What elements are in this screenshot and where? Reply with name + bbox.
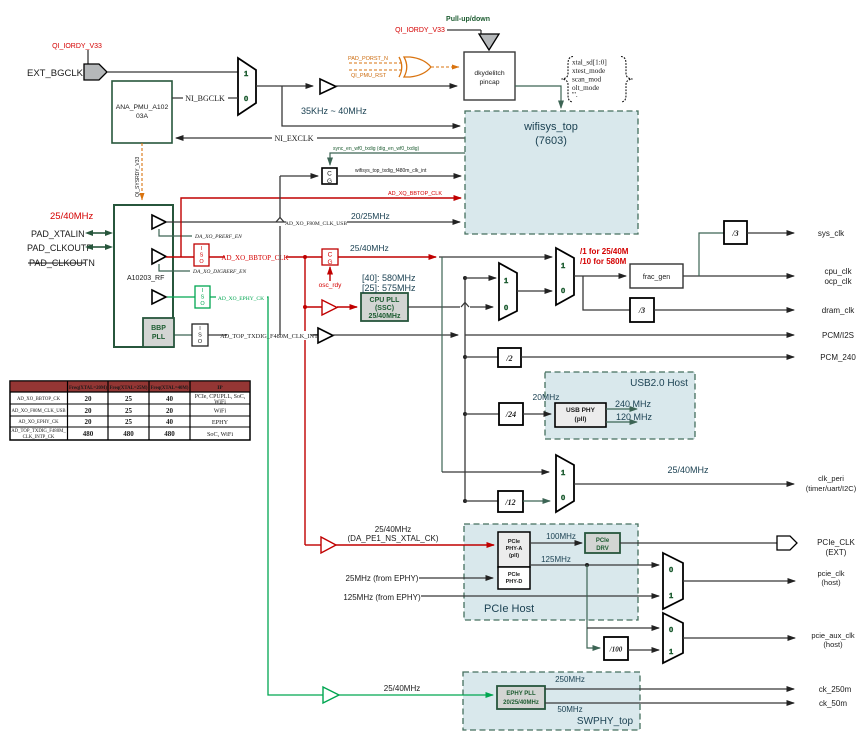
svg-text:0: 0 xyxy=(669,625,673,634)
mux M6 xyxy=(663,613,683,663)
svg-text:[40]: 580MHz: [40]: 580MHz xyxy=(362,273,416,283)
port PAD_CLKOUTP xyxy=(27,243,113,253)
svg-text:20/25/40MHz: 20/25/40MHz xyxy=(503,700,539,706)
svg-text:C: C xyxy=(328,252,333,259)
svg-text:A10203_RF: A10203_RF xyxy=(127,275,164,282)
wire aux vertical xyxy=(587,565,600,648)
svg-text:25/40MHz: 25/40MHz xyxy=(667,465,709,475)
svg-text:PAD_PORST_N: PAD_PORST_N xyxy=(348,56,388,62)
svg-text:DA_XO_DIGRERF_EN: DA_XO_DIGRERF_EN xyxy=(192,269,246,275)
svg-text:125MHz (from EPHY): 125MHz (from EPHY) xyxy=(343,593,421,602)
buffer B7 xyxy=(152,290,166,304)
svg-text:AD_TOP_TXDIG_F480M_CLK_INT: AD_TOP_TXDIG_F480M_CLK_INT xyxy=(220,333,318,340)
block ANA_PMU_A10203A xyxy=(112,81,172,143)
svg-text:PCIe: PCIe xyxy=(508,572,520,578)
svg-text:25/40MHz: 25/40MHz xyxy=(50,211,94,222)
svg-text:/10 for 580M: /10 for 580M xyxy=(580,257,627,266)
divider /100 xyxy=(604,637,628,660)
buffer B3 xyxy=(152,249,166,264)
buffer B2 xyxy=(152,215,166,229)
svg-text:25MHz (from EPHY): 25MHz (from EPHY) xyxy=(346,574,419,583)
svg-text:pincap: pincap xyxy=(479,79,499,86)
svg-text:PAD_XTALIN: PAD_XTALIN xyxy=(31,229,85,239)
divider /3 dram xyxy=(630,298,654,322)
svg-text:1: 1 xyxy=(561,261,565,270)
iso ISO1 red xyxy=(194,244,209,266)
block wifisys_top xyxy=(465,111,638,234)
svg-text:(timer/uart/I2C): (timer/uart/I2C) xyxy=(806,484,857,493)
wire to ephy pll xyxy=(339,684,493,695)
block EPHY PLL xyxy=(497,686,545,709)
svg-text:'''.: '''. xyxy=(572,91,578,99)
wire red vertical xyxy=(303,257,307,545)
svg-text:NI_EXCLK: NI_EXCLK xyxy=(274,134,313,143)
svg-text:wifisys_top: wifisys_top xyxy=(523,121,578,133)
wire PCM/I2S xyxy=(465,331,854,340)
svg-text:IP: IP xyxy=(217,385,223,391)
svg-text:480: 480 xyxy=(123,430,134,438)
wire mux out xyxy=(256,85,313,87)
svg-text:PAD_CLKOUTP: PAD_CLKOUTP xyxy=(27,243,92,253)
svg-text:QI_SYSRDY_V33: QI_SYSRDY_V33 xyxy=(135,156,141,197)
buffer B1 xyxy=(320,79,336,94)
svg-text:AD_XO_F80M_CLK_USB: AD_XO_F80M_CLK_USB xyxy=(11,409,65,414)
svg-text:SoC, WiFi: SoC, WiFi xyxy=(207,431,233,438)
svg-text:100MHz: 100MHz xyxy=(546,532,576,541)
wire pcie ext xyxy=(620,542,777,544)
wire AD_XO_BBTOP_CLK xyxy=(209,252,322,262)
svg-text:WiFi: WiFi xyxy=(214,400,226,406)
svg-text:240 MHz: 240 MHz xyxy=(615,399,652,409)
clock gate CG1 xyxy=(322,168,337,185)
svg-text:BBP: BBP xyxy=(151,325,166,332)
divider /24 xyxy=(465,403,523,425)
svg-text:1: 1 xyxy=(669,591,673,600)
svg-text:SWPHY_top: SWPHY_top xyxy=(577,716,634,727)
svg-text:1: 1 xyxy=(244,69,248,78)
pad PCIe_CLK EXT xyxy=(777,536,856,557)
wire DA_PE1 xyxy=(336,525,494,545)
svg-text:AD_XO_BBTOP_CK: AD_XO_BBTOP_CK xyxy=(17,397,61,402)
wire xor out xyxy=(431,66,459,68)
block SWPHY_top xyxy=(463,672,640,730)
svg-text:S: S xyxy=(200,253,204,259)
svg-text:/100: /100 xyxy=(609,646,623,654)
svg-text:PCIe: PCIe xyxy=(508,539,520,545)
svg-text:PLL: PLL xyxy=(152,334,166,341)
svg-text:40: 40 xyxy=(166,395,174,403)
svg-text:50MHz: 50MHz xyxy=(557,705,582,714)
divider /12 xyxy=(465,491,523,512)
block USB2.0 Host xyxy=(545,372,695,439)
block A10203_RF xyxy=(114,205,173,347)
svg-text:25/40MHz: 25/40MHz xyxy=(350,243,389,253)
buffer B5 xyxy=(318,328,333,343)
svg-text:O: O xyxy=(200,301,205,307)
svg-text:WiFi: WiFi xyxy=(214,408,227,415)
wire 480M xyxy=(333,334,458,336)
svg-text:DA_XO_PRERF_EN: DA_XO_PRERF_EN xyxy=(194,234,242,240)
svg-text:(EXT): (EXT) xyxy=(826,548,847,557)
wire cpupll out xyxy=(408,303,493,308)
wire enable DA_XO_PRERF_EN xyxy=(159,229,242,240)
wire aux 0 xyxy=(587,627,659,629)
wire xyxy=(336,85,457,87)
svg-text:sync_en_wf0_txdig (dig_en_wf0_: sync_en_wf0_txdig (dig_en_wf0_txdig) xyxy=(333,146,419,152)
wire AD_XQ_BBTOP_CLK xyxy=(181,191,461,257)
svg-text:PHY-D: PHY-D xyxy=(506,579,523,585)
svg-text:EPHY PLL: EPHY PLL xyxy=(506,691,536,697)
svg-text:dram_clk: dram_clk xyxy=(822,306,855,315)
wire xyxy=(166,256,194,258)
svg-text:/24: /24 xyxy=(505,410,516,419)
svg-text:20: 20 xyxy=(85,407,93,415)
svg-text:Freq(XTAL=20M): Freq(XTAL=20M) xyxy=(69,386,107,391)
wire red to pcie xyxy=(305,544,321,546)
svg-text:25/40MHz: 25/40MHz xyxy=(384,684,420,693)
svg-text:480: 480 xyxy=(83,430,94,438)
wire 25MHz ephy xyxy=(346,574,493,583)
buffer B4 red xyxy=(322,300,337,315)
svg-text:/3: /3 xyxy=(638,306,645,315)
svg-text:25: 25 xyxy=(125,418,133,426)
svg-text:(pll): (pll) xyxy=(509,553,519,559)
svg-text:40: 40 xyxy=(166,418,174,426)
wire pcie_clk xyxy=(683,569,845,587)
svg-text:/12: /12 xyxy=(504,498,515,507)
svg-text:20: 20 xyxy=(85,395,93,403)
svg-text:EPHY: EPHY xyxy=(212,419,229,426)
divider /3 top xyxy=(724,221,747,244)
wire 35KHz branch xyxy=(282,86,460,126)
svg-text:PHY-A: PHY-A xyxy=(506,546,523,552)
svg-text:0: 0 xyxy=(561,286,565,295)
svg-text:G: G xyxy=(327,259,332,266)
iso ISO3 black xyxy=(192,324,208,346)
block PCIe PHY-A xyxy=(498,532,530,567)
svg-text:G: G xyxy=(327,178,332,185)
svg-text:QI_PMU_RST: QI_PMU_RST xyxy=(351,73,387,79)
svg-text:20/25MHz: 20/25MHz xyxy=(351,211,390,221)
svg-text:25/40MHz: 25/40MHz xyxy=(369,313,401,320)
wire 25/40 to peri mux xyxy=(442,257,549,472)
svg-text:dkydelitch: dkydelitch xyxy=(474,70,504,77)
svg-text:/2: /2 xyxy=(505,354,512,363)
wire ck_50m xyxy=(545,699,847,714)
wire M3 out xyxy=(574,275,626,277)
svg-text:EXT_BGCLK: EXT_BGCLK xyxy=(27,68,84,79)
table freq xyxy=(10,381,250,440)
svg-text:35KHz ~ 40MHz: 35KHz ~ 40MHz xyxy=(301,106,367,116)
wire QI_PMU_RST xyxy=(349,70,402,79)
wire 20/25MHz usb xyxy=(166,211,460,227)
svg-text:pcie_aux_clk: pcie_aux_clk xyxy=(811,631,855,640)
svg-text:[25]: 575MHz: [25]: 575MHz xyxy=(362,283,416,293)
svg-text:480: 480 xyxy=(164,430,175,438)
svg-text:0: 0 xyxy=(504,303,508,312)
svg-text:PCIe Host: PCIe Host xyxy=(484,603,534,615)
wire AD_TOP_TXDIG label xyxy=(208,331,318,340)
buffer B6 red xyxy=(321,537,336,553)
svg-text:0: 0 xyxy=(561,493,565,502)
mux M2 xyxy=(499,263,517,320)
svg-text:Freq(XTAL=40M): Freq(XTAL=40M) xyxy=(151,386,189,391)
svg-text:PCM/I2S: PCM/I2S xyxy=(822,331,854,340)
svg-text:Pull-up/down: Pull-up/down xyxy=(446,16,490,23)
svg-text:25/40MHz: 25/40MHz xyxy=(375,525,411,534)
block PCIe Host xyxy=(464,524,638,620)
port EXT_BGCLK xyxy=(27,68,84,79)
svg-text:AD_XO_BBTOP_CLK: AD_XO_BBTOP_CLK xyxy=(221,254,288,262)
svg-text:DRV: DRV xyxy=(596,546,609,552)
block CPU PLL xyxy=(361,293,408,321)
svg-text:20: 20 xyxy=(166,407,174,415)
wire xyxy=(337,306,357,308)
svg-text:20: 20 xyxy=(85,418,93,426)
wire AD_XO_EPHY_CK xyxy=(210,293,323,695)
wire ephy iso xyxy=(167,296,195,298)
svg-text:25: 25 xyxy=(125,407,133,415)
wire 480M tap to CG1 xyxy=(279,176,281,335)
svg-text:0: 0 xyxy=(669,565,673,574)
wire f480m int to wifisys xyxy=(337,168,461,176)
svg-text:pcie_clk: pcie_clk xyxy=(817,569,844,578)
wire 120MHz xyxy=(606,412,653,422)
label 580MHz xyxy=(362,273,416,293)
svg-text:(7603): (7603) xyxy=(535,135,567,147)
wire NI_BGCLK xyxy=(172,93,238,103)
svg-text:AD_XO_F80M_CLK_USB: AD_XO_F80M_CLK_USB xyxy=(285,221,347,227)
divider /2 xyxy=(465,348,521,367)
svg-text:120 MHz: 120 MHz xyxy=(616,412,653,422)
gate XOR U1 xyxy=(399,57,431,77)
wire osc_rdy xyxy=(319,267,343,289)
net label QI_IORDY_V33 top xyxy=(395,27,445,34)
wire pincap to wifisys xyxy=(515,86,561,108)
wire to mux M2 in1 xyxy=(465,277,496,279)
wire xyxy=(107,71,238,73)
buffer B8 green xyxy=(323,687,339,703)
svg-text:/1 for 25/40M: /1 for 25/40M xyxy=(580,247,629,256)
net label QI_IORDY_V33 left xyxy=(52,43,102,50)
svg-text:xtest_mode: xtest_mode xyxy=(572,67,605,75)
svg-text:AD_XO_EPHY_CK: AD_XO_EPHY_CK xyxy=(18,420,59,425)
wire PAD_PORST_N xyxy=(348,56,404,63)
svg-text:25: 25 xyxy=(125,395,133,403)
label Pull-up/down xyxy=(446,16,490,23)
wire mux M2 out xyxy=(517,290,552,292)
svg-text:ck_250m: ck_250m xyxy=(819,685,852,694)
svg-text:CLK_INTP_CK: CLK_INTP_CK xyxy=(23,435,55,440)
wire /100 out xyxy=(628,649,659,651)
svg-text:ocp_clk: ocp_clk xyxy=(824,277,852,286)
wire NI_EXCLK xyxy=(176,133,465,143)
wire PCM_240 xyxy=(521,353,856,362)
wire 25/40MHz red xyxy=(338,243,436,257)
wire enable DA_XO_DIGRERF_EN xyxy=(159,264,246,275)
port PAD_XTALIN xyxy=(31,229,113,239)
iso ISO2 green xyxy=(195,286,210,308)
svg-text:USB2.0 Host: USB2.0 Host xyxy=(630,378,688,389)
svg-text:clk_peri: clk_peri xyxy=(818,474,844,483)
wire 125MHz xyxy=(530,555,659,567)
svg-text:S: S xyxy=(198,333,202,339)
mux M3 xyxy=(556,248,574,305)
wire dram tap xyxy=(583,276,630,310)
block USB PHY xyxy=(555,403,606,427)
svg-text:osc_rdy: osc_rdy xyxy=(319,282,343,289)
svg-text:(SSC): (SSC) xyxy=(375,305,394,312)
wire 125MHz ephy xyxy=(343,593,659,602)
wire cpu_clk xyxy=(683,267,853,286)
wire dram_clk xyxy=(654,306,855,315)
svg-text:xtal_sd[1:0]: xtal_sd[1:0] xyxy=(572,59,607,67)
svg-text:ANA_PMU_A102: ANA_PMU_A102 xyxy=(116,104,169,111)
svg-text:AD_XQ_BBTOP_CLK: AD_XQ_BBTOP_CLK xyxy=(388,191,442,197)
label 25/40MHz left xyxy=(50,211,94,222)
wire xyxy=(305,306,322,308)
mux M1 xyxy=(238,58,256,115)
label /1 for xyxy=(580,247,629,266)
block PCIe PHY-D xyxy=(498,567,530,589)
port PAD_CLKOUTN struck xyxy=(28,258,95,268)
wire sync_en xyxy=(330,146,465,165)
svg-text:AD_TOP_TXDIG_F480M_: AD_TOP_TXDIG_F480M_ xyxy=(11,429,66,434)
svg-text:0: 0 xyxy=(244,94,248,103)
wire clk_peri xyxy=(574,465,857,493)
wire sys_clk xyxy=(747,229,845,238)
svg-text:QI_IORDY_V33: QI_IORDY_V33 xyxy=(395,27,445,34)
brace list xtal_sd xyxy=(562,57,633,103)
wire xyxy=(447,30,481,35)
svg-text:/3: /3 xyxy=(731,229,738,238)
svg-text:1: 1 xyxy=(504,276,508,285)
svg-text:PCIe_CLK: PCIe_CLK xyxy=(817,538,855,547)
block BBP PLL xyxy=(143,318,174,347)
bus 480M vertical xyxy=(463,276,467,503)
mux M5 xyxy=(663,553,683,609)
mux M4 xyxy=(556,455,574,512)
clock gate CG2 red xyxy=(322,249,338,266)
svg-text:Freq(XTAL=25M): Freq(XTAL=25M) xyxy=(110,386,148,391)
svg-text:sys_clk: sys_clk xyxy=(818,229,845,238)
svg-text:20MHz: 20MHz xyxy=(533,392,560,402)
svg-text:PCIe: PCIe xyxy=(596,538,610,544)
pad pull-up/down xyxy=(479,34,499,50)
svg-text:NI_BGCLK: NI_BGCLK xyxy=(185,94,225,103)
svg-text:frac_gen: frac_gen xyxy=(643,274,670,281)
wire 240MHz xyxy=(606,399,652,409)
wire xyxy=(87,50,89,64)
svg-text:125MHz: 125MHz xyxy=(541,555,571,564)
svg-text:1: 1 xyxy=(561,468,565,477)
wire BBP to ISO xyxy=(174,334,192,336)
svg-text:USB PHY: USB PHY xyxy=(566,407,596,414)
svg-text:(pll): (pll) xyxy=(575,416,587,423)
svg-text:S: S xyxy=(201,295,205,301)
wire pcie_aux_clk xyxy=(683,631,855,649)
svg-text:CPU PLL: CPU PLL xyxy=(370,297,401,304)
svg-text:QI_IORDY_V33: QI_IORDY_V33 xyxy=(52,43,102,50)
svg-text:250MHz: 250MHz xyxy=(555,675,585,684)
wire vertical to CG1 xyxy=(276,176,318,222)
wire sys tap xyxy=(699,233,724,276)
wire 25/40 to M3 xyxy=(439,256,552,258)
wire /12 out xyxy=(523,500,550,502)
wire ck_250m xyxy=(545,675,852,694)
svg-text:cpu_clk: cpu_clk xyxy=(824,267,852,276)
block PCIe DRV xyxy=(585,533,620,553)
svg-text:O: O xyxy=(198,339,203,345)
svg-text:AD_XO_EPHY_CK: AD_XO_EPHY_CK xyxy=(218,296,264,302)
wire 20MHz xyxy=(523,392,559,414)
wire 100MHz xyxy=(530,532,582,543)
svg-text:scan_mod: scan_mod xyxy=(572,76,602,84)
svg-text:C: C xyxy=(327,171,332,178)
svg-text:03A: 03A xyxy=(136,113,149,120)
pad EXT_BGCLK xyxy=(84,64,107,80)
svg-text:(host): (host) xyxy=(823,640,843,649)
svg-text:ck_50m: ck_50m xyxy=(819,699,847,708)
svg-text:1: 1 xyxy=(669,647,673,656)
svg-text:wifisys_top_txdig_f480m_clk_in: wifisys_top_txdig_f480m_clk_int xyxy=(355,168,427,174)
svg-text:O: O xyxy=(199,259,204,265)
svg-text:(DA_PE1_NS_XTAL_CK): (DA_PE1_NS_XTAL_CK) xyxy=(348,534,439,543)
wire QI_SYSRDY_V33 xyxy=(135,143,142,200)
block frac_gen xyxy=(630,264,683,288)
block dkydelitch pincap xyxy=(464,52,515,100)
svg-text:PCM_240: PCM_240 xyxy=(820,353,856,362)
svg-text:(host): (host) xyxy=(821,578,841,587)
